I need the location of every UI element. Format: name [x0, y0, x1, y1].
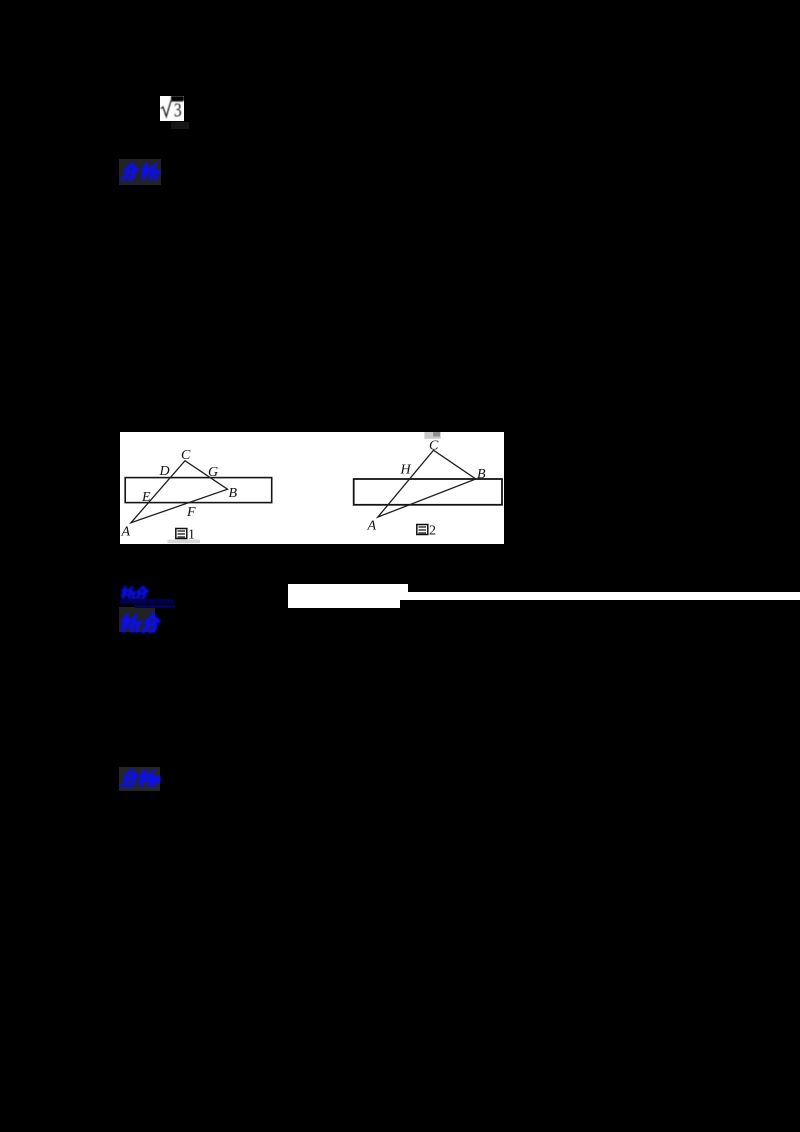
svg-text:A: A [121, 524, 131, 539]
svg-text:G: G [208, 465, 218, 480]
svg-text:3: 3 [174, 98, 182, 120]
svg-text:1: 1 [188, 527, 195, 542]
svg-text:B: B [477, 467, 486, 482]
svg-text:E: E [141, 490, 151, 505]
svg-text:C: C [181, 448, 191, 463]
svg-text:C: C [429, 438, 439, 453]
svg-text:B: B [229, 486, 238, 501]
svg-text:2: 2 [429, 523, 436, 538]
svg-text:F: F [186, 505, 196, 520]
svg-text:A: A [367, 518, 377, 533]
svg-text:H: H [400, 462, 412, 477]
svg-text:D: D [159, 464, 170, 479]
